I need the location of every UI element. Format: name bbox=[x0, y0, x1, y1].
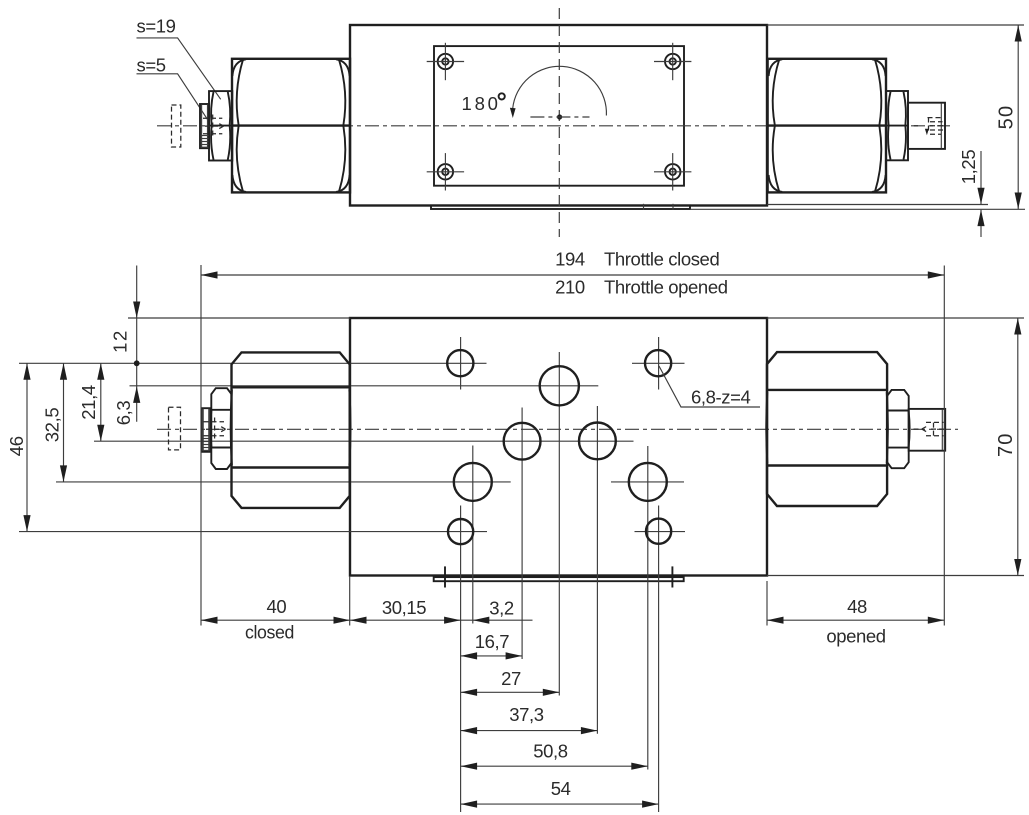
hole E-left bbox=[448, 519, 473, 544]
dim 194 line bbox=[201, 249, 944, 279]
hole D-right bbox=[629, 463, 667, 501]
dim 50 bbox=[996, 25, 1022, 209]
threaded sleeve left (bottom view) bbox=[202, 408, 211, 452]
extension line right x=944.3 bbox=[943, 266, 945, 626]
svg-text:Throttle closed: Throttle closed bbox=[604, 249, 719, 270]
vertical extension C-left bbox=[521, 408, 523, 660]
svg-text:210: 210 bbox=[555, 277, 585, 298]
hole D-left bbox=[454, 463, 492, 501]
hex locknut small left (bottom view) bbox=[210, 388, 231, 469]
row D extension line left bbox=[56, 481, 511, 483]
dim 1,25 extension lines bbox=[767, 204, 988, 206]
svg-text:12: 12 bbox=[110, 329, 131, 353]
screw bottom-right bbox=[654, 153, 691, 190]
hidden plug outline left (bottom view) bbox=[169, 407, 181, 450]
svg-text:32,5: 32,5 bbox=[42, 408, 63, 443]
svg-text:27: 27 bbox=[501, 668, 521, 689]
vertical extension D-left bbox=[472, 446, 474, 624]
hole C-left bbox=[504, 423, 541, 460]
screw top-right bbox=[654, 43, 691, 80]
dim chain row 1: 40 / 30,15 / 3,2 bbox=[201, 596, 533, 642]
svg-text:16,7: 16,7 bbox=[475, 631, 510, 652]
svg-text:54: 54 bbox=[551, 778, 571, 799]
subplate tick left bbox=[444, 566, 446, 587]
svg-text:opened: opened bbox=[826, 625, 885, 646]
hex locknut small right (bottom view) bbox=[887, 390, 910, 468]
hole E-right bbox=[646, 519, 671, 544]
hex locknut small left (top view) bbox=[209, 91, 232, 160]
subplate tick 1 bbox=[643, 204, 645, 210]
svg-text:180: 180 bbox=[462, 93, 501, 114]
vertical crosshair A-left bbox=[460, 337, 462, 390]
svg-text:s=5: s=5 bbox=[137, 54, 166, 75]
hex locknut small right (top view) bbox=[886, 91, 908, 160]
rotation arc 180 deg bbox=[513, 66, 607, 115]
leader s=19 bbox=[137, 38, 221, 99]
threaded sleeve left (top view) bbox=[200, 104, 209, 148]
dim 70 bbox=[995, 318, 1021, 576]
adjustment stud right (bottom view) bbox=[909, 409, 946, 451]
horizontal centerline (top view) bbox=[157, 125, 950, 127]
svg-text:21,4: 21,4 bbox=[78, 385, 99, 420]
dim 27 bbox=[461, 668, 560, 696]
dim 50 extension line top bbox=[767, 24, 1024, 26]
hole A-left bbox=[447, 350, 473, 376]
hidden plug outline left (top view) bbox=[172, 105, 181, 147]
svg-text:s=19: s=19 bbox=[137, 16, 176, 37]
vertical centerline (top view) bbox=[558, 8, 560, 237]
body top extension right (70) bbox=[767, 317, 1024, 319]
svg-text:30,15: 30,15 bbox=[382, 597, 426, 618]
hidden socket left (top view) bbox=[203, 115, 224, 138]
svg-text:48: 48 bbox=[847, 596, 867, 617]
svg-text:50: 50 bbox=[996, 105, 1018, 130]
hex nut large left (top view) bbox=[232, 59, 350, 193]
svg-text:40: 40 bbox=[267, 596, 287, 617]
subplate edge (bottom view) bbox=[434, 577, 684, 581]
svg-text:37,3: 37,3 bbox=[509, 704, 544, 725]
svg-text:6,3: 6,3 bbox=[113, 401, 134, 426]
row A extension line bbox=[19, 362, 487, 364]
hex nut large left (bottom view) bbox=[231, 352, 351, 508]
arc center dash line bbox=[530, 116, 589, 118]
svg-text:50,8: 50,8 bbox=[533, 741, 568, 762]
hidden hex socket right (top view) bbox=[914, 118, 943, 136]
hex nut large right (top view) bbox=[768, 59, 886, 193]
leader 6,8-z=4 bbox=[659, 366, 760, 407]
arc arrowhead bbox=[510, 108, 516, 118]
hidden socket left (bottom view) bbox=[204, 418, 226, 441]
hole B center bbox=[540, 366, 579, 405]
body top extension left bbox=[128, 317, 350, 319]
hole C-right bbox=[579, 423, 616, 460]
subplate tick right bbox=[671, 566, 673, 587]
vertical extension D-right bbox=[647, 446, 649, 770]
dim 54 bbox=[461, 778, 659, 808]
valve body bottom view bbox=[350, 318, 767, 576]
svg-text:70: 70 bbox=[995, 432, 1017, 457]
svg-text:1,25: 1,25 bbox=[958, 150, 979, 185]
hex nut large right (bottom view) bbox=[766, 352, 888, 506]
screw bottom-left bbox=[427, 153, 464, 190]
dim 50,8 bbox=[461, 741, 648, 770]
svg-text:194: 194 bbox=[555, 249, 585, 270]
svg-text:3,2: 3,2 bbox=[489, 598, 514, 619]
mounting plate bbox=[434, 46, 684, 186]
row A right crosshair bbox=[632, 362, 685, 364]
adjustment stud right (top view) bbox=[908, 103, 945, 149]
row B extension line bbox=[130, 385, 599, 387]
vertical crosshair A-right bbox=[658, 337, 660, 390]
degree symbol bbox=[499, 93, 505, 99]
dim 48 bbox=[767, 596, 944, 646]
row E extension line left bbox=[19, 531, 487, 533]
screw top-left bbox=[427, 43, 464, 80]
hidden hex socket right (bottom view) bbox=[914, 422, 945, 435]
vertical extension E-right bbox=[658, 506, 660, 813]
dim 12 / 6,3 vertical line bbox=[110, 266, 141, 426]
row D crosshair right bbox=[611, 481, 684, 483]
svg-text:46: 46 bbox=[6, 436, 27, 456]
arc center dot bbox=[557, 114, 562, 119]
dim 21,4 bbox=[78, 363, 104, 441]
vertical extension E-left bbox=[460, 506, 462, 813]
leader s=5 bbox=[137, 74, 208, 120]
subplate edge (top view) bbox=[431, 205, 690, 209]
dim 37,3 bbox=[461, 704, 598, 734]
svg-text:closed: closed bbox=[245, 621, 294, 642]
valve body top view bbox=[350, 25, 767, 206]
svg-text:Throttle opened: Throttle opened bbox=[604, 277, 728, 298]
svg-text:6,8-z=4: 6,8-z=4 bbox=[691, 387, 751, 408]
body right edge extension down bbox=[766, 581, 768, 626]
row C extension line bbox=[94, 440, 634, 442]
body left edge extension down bbox=[349, 576, 351, 626]
dim 16,7 bbox=[461, 631, 522, 660]
dim 46 bbox=[6, 363, 31, 531]
dim 1,25 bbox=[958, 150, 985, 237]
row E crosshair right bbox=[635, 531, 686, 533]
label 210 Throttle opened bbox=[555, 277, 728, 298]
subplate tick 2 bbox=[672, 204, 674, 210]
horizontal centerline (bottom view) bbox=[157, 428, 958, 430]
extension line left x=201 bbox=[200, 265, 202, 626]
dim 32,5 bbox=[42, 363, 68, 482]
hole A-right bbox=[645, 350, 671, 376]
vertical extension C-right bbox=[596, 406, 598, 734]
body bottom extension right (70) bbox=[767, 575, 1024, 577]
vertical extension B bbox=[558, 352, 560, 696]
